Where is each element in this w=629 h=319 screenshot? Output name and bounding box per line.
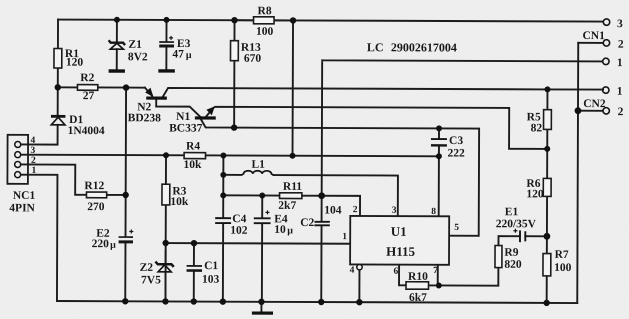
svg-text:10k: 10k [183, 159, 202, 171]
svg-text:NC1: NC1 [13, 190, 36, 202]
svg-text:CN1: CN1 [582, 30, 605, 42]
svg-text:C2: C2 [300, 217, 314, 229]
svg-text:3: 3 [392, 206, 397, 216]
svg-text:2: 2 [353, 205, 358, 215]
svg-text:4: 4 [31, 136, 36, 146]
svg-text:H115: H115 [386, 244, 415, 259]
svg-text:1: 1 [31, 166, 36, 176]
svg-text:100: 100 [554, 262, 572, 274]
svg-text:1: 1 [617, 57, 623, 69]
svg-text:BD238: BD238 [128, 112, 162, 124]
svg-text:C4: C4 [232, 213, 246, 225]
svg-text:220: 220 [92, 238, 110, 250]
svg-text:R2: R2 [80, 72, 94, 84]
svg-text:R8: R8 [258, 5, 272, 17]
svg-text:120: 120 [66, 57, 84, 69]
svg-text:10k: 10k [170, 196, 189, 208]
svg-text:μ: μ [110, 240, 116, 251]
svg-text:103: 103 [202, 274, 220, 286]
svg-text:820: 820 [504, 259, 522, 271]
svg-text:5: 5 [454, 223, 459, 233]
svg-text:Z1: Z1 [128, 39, 142, 51]
svg-text:6: 6 [394, 267, 399, 277]
svg-text:CN2: CN2 [583, 98, 606, 110]
svg-text:R7: R7 [555, 249, 569, 261]
svg-text:47: 47 [172, 48, 184, 60]
svg-text:U1: U1 [391, 224, 407, 239]
svg-text:1N4004: 1N4004 [68, 125, 105, 137]
svg-text:2: 2 [31, 156, 36, 166]
svg-text:104: 104 [324, 205, 342, 217]
svg-text:R9: R9 [504, 247, 518, 259]
svg-text:R4: R4 [186, 141, 200, 153]
svg-text:L1: L1 [251, 159, 265, 171]
svg-text:4: 4 [350, 266, 355, 276]
svg-text:1: 1 [342, 232, 347, 242]
svg-text:10: 10 [274, 224, 286, 236]
svg-text:82: 82 [531, 122, 543, 134]
svg-text:N1: N1 [176, 111, 190, 123]
svg-text:1: 1 [617, 86, 623, 98]
svg-text:E1: E1 [505, 206, 519, 218]
svg-text:29002617004: 29002617004 [391, 40, 457, 54]
svg-text:3: 3 [31, 146, 36, 156]
svg-text:R12: R12 [84, 180, 104, 192]
svg-text:8V2: 8V2 [128, 51, 148, 63]
svg-text:120: 120 [526, 188, 544, 200]
svg-text:BC337: BC337 [169, 122, 203, 134]
svg-text:R11: R11 [283, 181, 302, 193]
svg-text:220/35V: 220/35V [496, 218, 537, 230]
svg-text:100: 100 [256, 26, 274, 38]
svg-text:LC: LC [367, 40, 384, 54]
svg-text:C1: C1 [204, 260, 218, 272]
svg-text:3: 3 [617, 18, 623, 30]
svg-text:Z2: Z2 [140, 262, 154, 274]
svg-text:102: 102 [230, 225, 248, 237]
svg-text:μ: μ [186, 50, 192, 61]
svg-text:8: 8 [431, 207, 436, 217]
svg-text:2: 2 [618, 106, 624, 118]
svg-text:7V5: 7V5 [141, 274, 161, 286]
svg-text:6k7: 6k7 [409, 292, 427, 304]
svg-text:C3: C3 [449, 135, 463, 147]
svg-text:222: 222 [448, 148, 466, 160]
svg-text:670: 670 [244, 53, 262, 65]
svg-text:7: 7 [433, 266, 438, 276]
svg-text:270: 270 [87, 201, 105, 213]
svg-text:2k7: 2k7 [278, 200, 296, 212]
svg-text:R10: R10 [408, 271, 428, 283]
svg-text:μ: μ [287, 225, 293, 236]
svg-text:4PIN: 4PIN [9, 202, 35, 214]
svg-text:27: 27 [83, 90, 95, 102]
svg-text:2: 2 [618, 39, 624, 51]
